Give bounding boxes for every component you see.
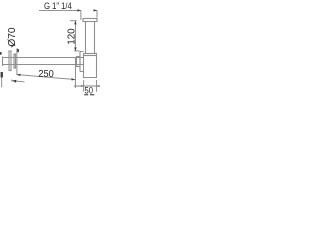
- 50 dim line: [74, 85, 100, 87]
- G leader arrow right: [94, 9, 98, 11]
- horizontal pipe: [3, 58, 84, 65]
- 250 right arrow: [71, 78, 75, 80]
- svg-text:120: 120: [67, 28, 78, 45]
- dash under 0: [90, 94, 94, 95]
- cup collar: [84, 54, 97, 56]
- svg-text:Ø70: Ø70: [7, 27, 18, 47]
- O70 arrow blob: [17, 49, 19, 53]
- vertical inlet tube: [86, 22, 95, 54]
- pipe end cap: [2, 57, 4, 67]
- escutcheon: [9, 51, 11, 71]
- G dim right ext: [96, 10, 98, 17]
- 250 right ext: [74, 58, 76, 88]
- 120 bottom ext: [74, 50, 80, 52]
- lower dim left arrow: [12, 80, 16, 83]
- 120 top ext: [70, 20, 77, 22]
- 120 dim line: [74, 21, 76, 51]
- G leader arrow left: [77, 9, 81, 11]
- G dim left ext: [80, 10, 82, 20]
- wall arrow blob: [0, 52, 2, 55]
- 50 right ext: [96, 80, 98, 92]
- 120 bottom arrow: [74, 47, 76, 51]
- O70 leader / 250 left ext: [16, 49, 18, 76]
- wall ext line: [1, 78, 3, 88]
- top inlet nut: [83, 19, 97, 22]
- wall-side nut: [14, 54, 16, 68]
- lower dim line: [12, 81, 24, 82]
- G dim underline: [39, 9, 81, 11]
- 50 right arrow: [97, 85, 100, 87]
- O70 slash extension: [11, 44, 15, 47]
- flange ext line: [11, 80, 13, 82]
- 250 dim line: [17, 75, 75, 80]
- dash under 5: [84, 94, 88, 95]
- cup body: [84, 56, 97, 78]
- 120 top arrow: [74, 21, 76, 25]
- 50 left arrow: [81, 85, 84, 87]
- G dim right segment: [94, 9, 98, 11]
- svg-text:G 1" 1/4: G 1" 1/4: [44, 1, 72, 12]
- wall face bar: [1, 72, 3, 78]
- 50 left ext: [83, 80, 85, 92]
- side boss: [80, 52, 84, 72]
- cup-side nut: [77, 57, 81, 67]
- 250 left arrow: [17, 74, 21, 76]
- technical drawing: bottle trap with dimensions: [0, 0, 100, 100]
- svg-text:50: 50: [85, 85, 94, 95]
- svg-text:250: 250: [38, 69, 54, 81]
